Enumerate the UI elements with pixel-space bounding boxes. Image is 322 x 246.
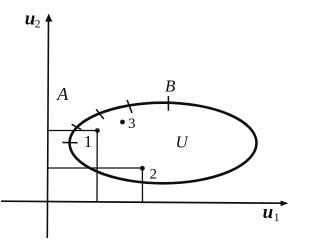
svg-text:B: B	[165, 77, 176, 96]
tick t1 on ellipse (horizontal)	[62, 142, 77, 144]
tick t4 on ellipse	[127, 100, 132, 113]
vertical line from point 2 down to u1 axis	[141, 168, 143, 202]
horizontal line from u2 axis to point 1	[47, 130, 97, 132]
svg-text:u: u	[25, 9, 36, 30]
svg-text:2: 2	[150, 167, 158, 183]
horizontal line from u2 axis to point 2	[47, 167, 142, 169]
svg-text:3: 3	[128, 116, 136, 132]
u1 axis arrowhead	[281, 201, 289, 207]
ellipse U	[70, 103, 257, 184]
svg-text:U: U	[176, 133, 190, 152]
svg-text:u: u	[263, 202, 274, 223]
point 2 dot	[140, 166, 145, 171]
u2 axis	[47, 20, 48, 238]
tick t3 on ellipse	[96, 109, 104, 119]
svg-text:1: 1	[84, 132, 93, 151]
point 3 dot	[120, 120, 125, 125]
svg-text:1: 1	[274, 212, 280, 224]
point 1 dot	[95, 128, 100, 133]
u2 axis arrowhead	[45, 14, 52, 22]
svg-text:2: 2	[35, 19, 41, 31]
tick t2 on ellipse	[72, 124, 82, 129]
vertical line from point 1 down to u1 axis	[96, 131, 98, 202]
tick t5 on ellipse at B (vertical)	[167, 96, 169, 111]
svg-text:A: A	[56, 84, 69, 104]
u1 axis	[1, 201, 282, 203]
